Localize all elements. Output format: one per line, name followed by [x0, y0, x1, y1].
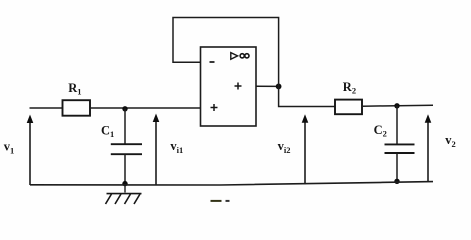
wire: feedback loop: [173, 18, 279, 87]
wire: op-amp output: [256, 85, 279, 87]
op-amp U1: [201, 47, 257, 126]
resistor R1: [63, 100, 91, 116]
node: output junction dot: [276, 84, 282, 90]
op-amp ideal gain symbol (triangle + infinity): [231, 53, 249, 60]
arrow Vi1: [153, 114, 160, 185]
wire: R2 to right end: [362, 104, 433, 107]
node: junction dot at C1 top: [122, 106, 127, 111]
capacitor C1: [111, 144, 142, 154]
node: junction dot at C1 bottom: [122, 181, 127, 186]
op-amp plus input label: [211, 104, 218, 111]
node: junction dot at C2 bottom: [394, 179, 399, 184]
wire: C2 bottom lead: [396, 153, 398, 182]
wire: C1 top lead: [124, 109, 126, 144]
wire: R1 to op-amp plus input: [90, 107, 201, 109]
wire: output down to R2 level: [279, 86, 335, 106]
wire: C2 top lead: [396, 106, 398, 145]
arrow V1: [27, 115, 34, 186]
resistor R2: [335, 100, 362, 115]
wire: C1 bottom lead: [124, 154, 126, 184]
wire: input top-left horizontal: [30, 107, 63, 109]
ground: [106, 194, 142, 204]
node: junction dot at C2 top: [394, 103, 399, 108]
wire: bottom rail: [30, 182, 433, 185]
op-amp minus input label: [210, 61, 215, 63]
caption fragment (cropped figure label): [211, 200, 222, 202]
op-amp output plus label: [235, 83, 242, 90]
capacitor C2: [385, 144, 415, 153]
wire: ground stub: [124, 184, 126, 193]
arrow V2: [425, 114, 432, 182]
arrow Vi2: [302, 114, 309, 184]
